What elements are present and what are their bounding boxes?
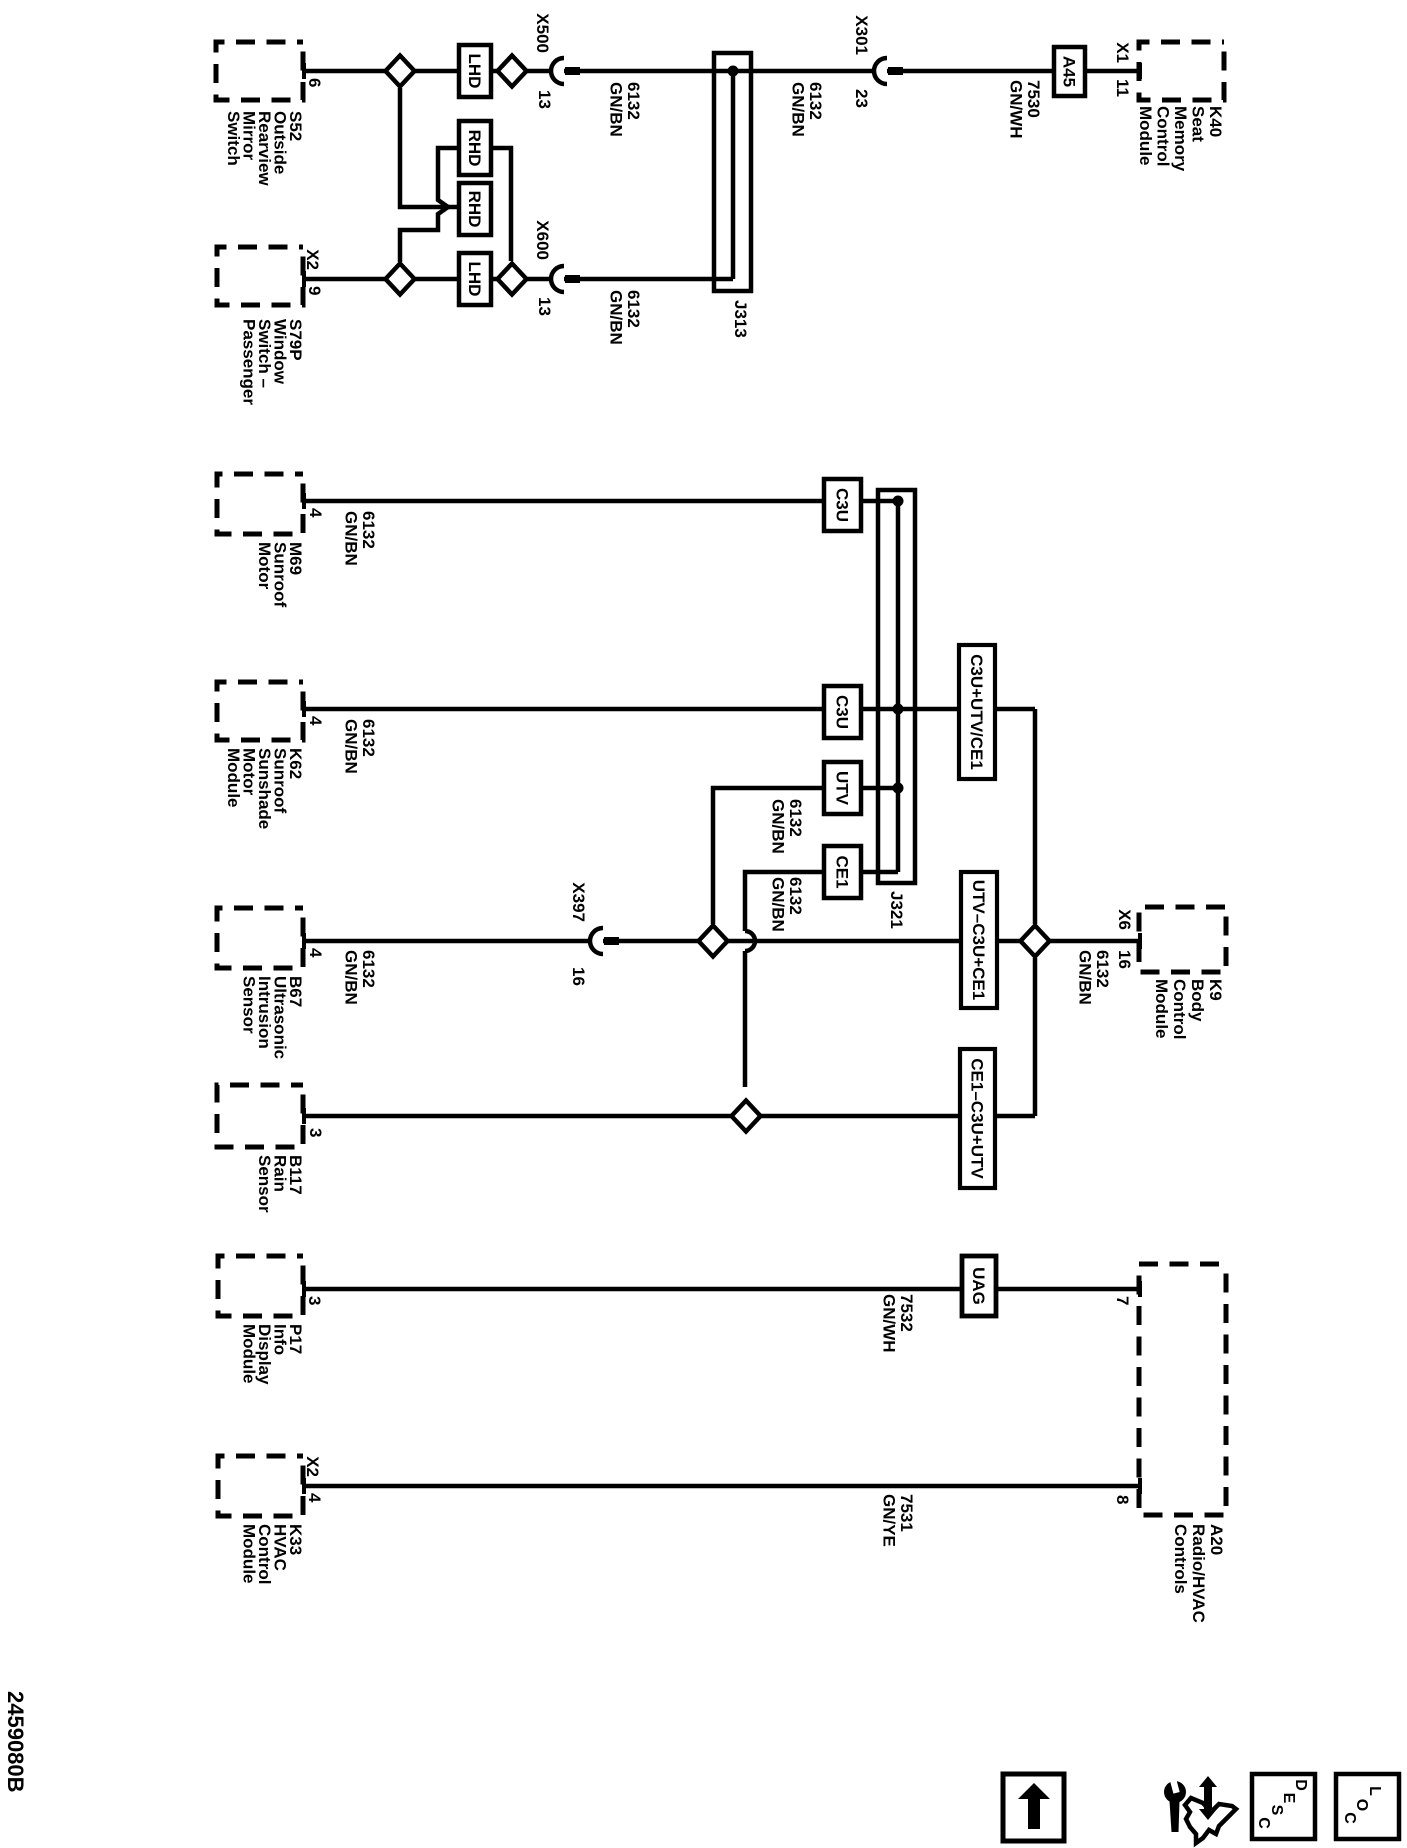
svg-text:RHD: RHD [465,191,484,228]
svg-text:13: 13 [535,90,554,109]
svg-text:4: 4 [306,716,325,726]
svg-text:3: 3 [306,1128,325,1137]
svg-text:Motor: Motor [255,542,274,590]
svg-text:Module: Module [224,748,243,808]
svg-text:4: 4 [305,1493,324,1503]
svg-text:UTV–C3U+CE1: UTV–C3U+CE1 [969,880,988,1000]
svg-text:K9: K9 [1206,979,1225,1001]
svg-text:6132: 6132 [359,950,378,988]
svg-text:C3U: C3U [833,488,852,522]
svg-text:4: 4 [306,948,325,958]
svg-text:Module: Module [1152,979,1171,1039]
svg-text:Control: Control [1170,979,1189,1039]
svg-text:Sensor: Sensor [240,976,259,1034]
svg-text:6132: 6132 [786,799,805,837]
svg-text:Memory: Memory [1171,106,1190,172]
svg-text:Control: Control [1154,106,1173,166]
svg-text:UTV: UTV [833,771,852,806]
svg-text:16: 16 [569,967,588,986]
svg-text:GN/BN: GN/BN [607,82,626,137]
svg-text:K40: K40 [1206,106,1225,137]
svg-text:X6: X6 [1115,909,1134,930]
svg-text:6132: 6132 [1093,950,1112,988]
svg-text:GN/BN: GN/BN [769,799,788,854]
svg-text:4: 4 [306,508,325,518]
svg-text:6132: 6132 [359,719,378,757]
svg-text:CE1–C3U+UTV: CE1–C3U+UTV [968,1058,987,1179]
svg-text:23: 23 [852,89,871,108]
svg-text:Body: Body [1188,979,1207,1022]
svg-text:GN/BN: GN/BN [342,950,361,1005]
svg-text:Seat: Seat [1189,106,1208,142]
svg-text:2459080B: 2459080B [3,1691,28,1793]
svg-text:RHD: RHD [465,130,484,167]
svg-text:Controls: Controls [1171,1524,1190,1594]
svg-text:C3U: C3U [833,695,852,729]
svg-text:GN/BN: GN/BN [607,290,626,345]
svg-text:16: 16 [1115,950,1134,969]
svg-text:CE1: CE1 [833,855,852,888]
svg-text:J321: J321 [887,891,906,929]
svg-text:LHD: LHD [465,54,484,89]
svg-text:Module: Module [1136,106,1155,166]
svg-text:GN/YE: GN/YE [880,1494,899,1547]
svg-text:S: S [1268,1805,1285,1816]
svg-text:J313: J313 [731,300,750,338]
svg-text:7532: 7532 [897,1294,916,1332]
svg-text:D: D [1292,1779,1309,1791]
svg-text:GN/BN: GN/BN [789,82,808,137]
svg-text:6132: 6132 [359,511,378,549]
svg-text:C: C [1341,1812,1358,1824]
svg-text:X600: X600 [533,220,552,260]
svg-text:9: 9 [305,286,324,295]
svg-text:LHD: LHD [465,262,484,297]
svg-text:X301: X301 [852,15,871,55]
svg-text:GN/WH: GN/WH [1007,80,1026,139]
svg-text:C3U+UTV/CE1: C3U+UTV/CE1 [967,654,986,770]
svg-text:X2: X2 [303,249,322,270]
svg-text:X2: X2 [303,1456,322,1477]
svg-text:GN/BN: GN/BN [342,719,361,774]
svg-text:Passenger: Passenger [240,319,259,405]
svg-text:7531: 7531 [897,1494,916,1532]
svg-text:6132: 6132 [624,290,643,328]
svg-text:A45: A45 [1060,56,1079,87]
svg-text:E: E [1280,1793,1297,1804]
svg-text:L: L [1366,1786,1383,1796]
svg-text:X500: X500 [533,13,552,53]
svg-text:6132: 6132 [786,877,805,915]
svg-text:6132: 6132 [806,82,825,120]
svg-text:O: O [1353,1799,1370,1811]
svg-text:A20: A20 [1207,1524,1226,1555]
svg-text:11: 11 [1113,79,1132,97]
svg-text:Module: Module [240,1524,259,1584]
svg-text:Module: Module [240,1324,259,1384]
svg-text:6132: 6132 [624,82,643,120]
svg-text:Switch: Switch [224,111,243,166]
svg-text:GN/BN: GN/BN [1076,950,1095,1005]
svg-text:13: 13 [535,297,554,316]
svg-text:X397: X397 [569,882,588,922]
svg-text:Radio/HVAC: Radio/HVAC [1189,1524,1208,1623]
svg-text:GN/WH: GN/WH [880,1294,899,1353]
svg-text:3: 3 [305,1296,324,1305]
svg-text:UAG: UAG [969,1267,988,1305]
svg-text:6: 6 [305,78,324,87]
svg-text:7530: 7530 [1024,80,1043,118]
svg-text:X1: X1 [1113,42,1132,63]
svg-text:GN/BN: GN/BN [769,877,788,932]
svg-text:7: 7 [1113,1296,1132,1305]
svg-text:GN/BN: GN/BN [342,511,361,566]
svg-text:8: 8 [1113,1495,1132,1504]
svg-text:Sensor: Sensor [255,1155,274,1213]
svg-text:C: C [1255,1817,1272,1829]
